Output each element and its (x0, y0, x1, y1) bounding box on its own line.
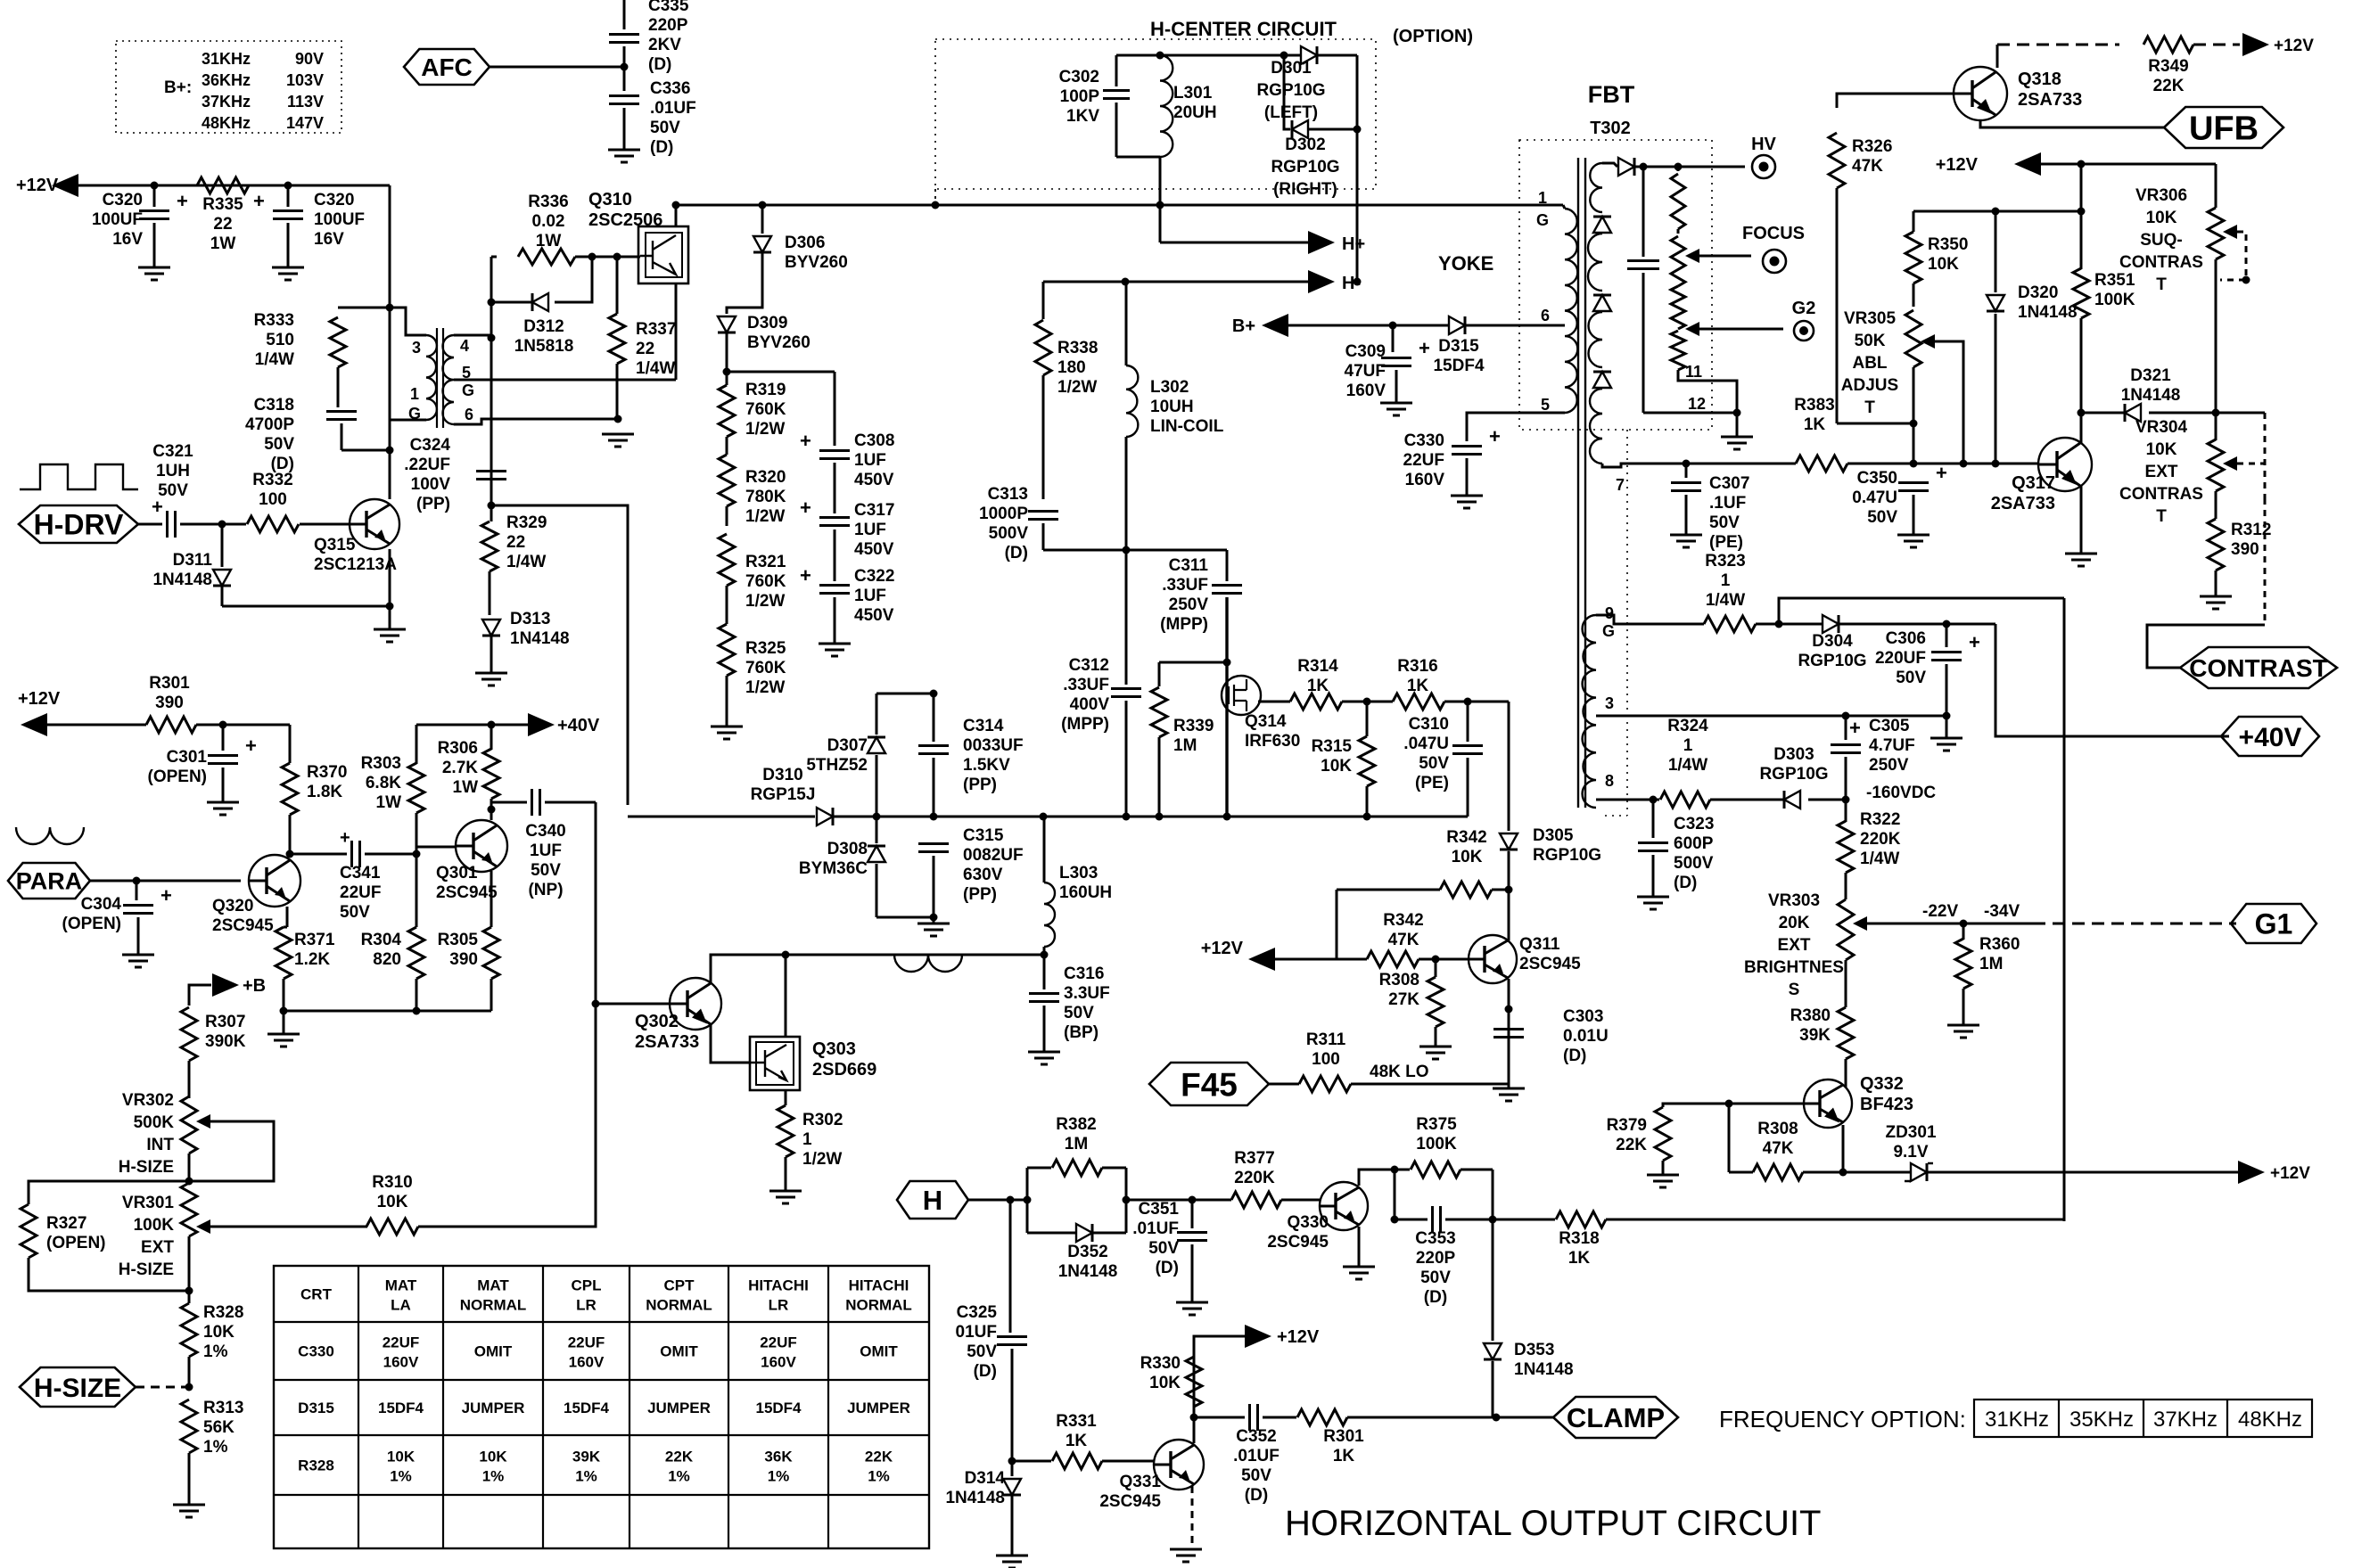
wire R301 to R370 (196, 724, 290, 727)
wire H-center bottom rail (1116, 156, 1160, 159)
capacitor C306 (1946, 624, 1948, 647)
wire D308/C315 bottom link (876, 916, 934, 919)
transformer T301 core (436, 328, 438, 428)
svg-text:48K LO: 48K LO (1370, 1063, 1429, 1081)
resistor R360 (1962, 924, 1965, 940)
wire pin3 rail stub (1596, 715, 1621, 718)
ground FBT internal (1736, 413, 1739, 437)
svg-text:+: + (1936, 462, 1947, 484)
wire T301 pin4 node down to C324 (490, 257, 493, 505)
node R333 top junction (386, 304, 394, 312)
wire FBT pin6 connect (1468, 324, 1565, 327)
resistor R310 (366, 1219, 418, 1235)
transistor Q302 (2SA733) (670, 978, 721, 1030)
capacitor C335 (623, 0, 626, 29)
wire Q301 emitter to R305 (490, 871, 493, 927)
svg-text:1: 1 (1538, 189, 1547, 207)
svg-text:L30120UH: L30120UH (1173, 84, 1217, 122)
wire HV caps chain (727, 371, 835, 374)
node R342 junction (1505, 886, 1513, 894)
dotted outline FBT (1519, 140, 1712, 430)
connector H-SIZE (20, 1367, 136, 1407)
svg-text:JUMPER: JUMPER (462, 1400, 525, 1416)
capacitor C325 (1009, 1200, 1012, 1333)
ground below R308 (1419, 1047, 1452, 1059)
wire Q332 emitter (1842, 1125, 1845, 1172)
svg-text:+: + (1489, 425, 1501, 447)
capacitor C309 (1392, 325, 1395, 352)
FBT focus divider resistor middle (1671, 286, 1685, 329)
FBT G2 pot wiper (1685, 322, 1699, 336)
capacitor C305 (1845, 716, 1847, 740)
resistor R314 (1290, 694, 1342, 710)
svg-text:F45: F45 (1181, 1066, 1238, 1103)
FBT HV secondary winding with rectifier diodes (1590, 163, 1602, 212)
svg-text:3: 3 (1605, 694, 1614, 712)
connector PARA (8, 863, 90, 899)
power +40V arrow (528, 713, 555, 736)
capacitor C341 (352, 841, 360, 867)
capacitor C303 (1493, 1030, 1524, 1038)
diode D301 (1301, 46, 1317, 64)
svg-text:R3701.8K: R3701.8K (307, 763, 347, 801)
wire H-SIZE dashed to node (136, 1386, 189, 1389)
diode D315 (1449, 316, 1465, 334)
svg-text:+40V: +40V (2239, 723, 2302, 752)
svg-text:H+: H+ (1342, 234, 1365, 254)
wire Q332 base node down to R308 (1728, 1104, 1731, 1172)
wire stub to H-center dashed (934, 189, 936, 205)
svg-text:B+:: B+: (164, 78, 192, 97)
capacitor C301 (OPEN) (222, 725, 225, 751)
svg-text:-34V: -34V (1984, 902, 2020, 921)
svg-text:R322220K1/4W: R322220K1/4W (1860, 810, 1901, 868)
diode D352 (1027, 1232, 1076, 1235)
resistor R305 (483, 927, 499, 979)
power +12V (left mid) (21, 713, 47, 736)
power B+ arrow (1262, 314, 1288, 337)
svg-text:FOCUS: FOCUS (1742, 224, 1805, 243)
capacitor C351 (1191, 1200, 1194, 1228)
resistor R307 (181, 1007, 197, 1061)
svg-text:C3211UH50V: C3211UH50V (152, 442, 193, 500)
wire R318 to contrast vertical (1606, 1219, 2064, 1221)
power +B arrow (189, 985, 211, 1006)
resistor R328 (188, 1291, 191, 1303)
diode D313 (482, 620, 500, 636)
wire ZD301 to +12V (1928, 1171, 2240, 1174)
wire VR304 wiper dashed down to contrast (2264, 498, 2267, 625)
svg-text:G2: G2 (1792, 299, 1816, 318)
resistor R383 (1796, 456, 1847, 472)
wire pin8 rail (1621, 799, 1659, 801)
resistor R338 (1042, 282, 1045, 319)
diode ZD301 (1843, 1171, 1911, 1174)
svg-text:+: + (340, 828, 350, 848)
wire C324 junction to D310 line (491, 505, 628, 805)
resistor R336 (491, 256, 497, 259)
ground below C307 (1670, 535, 1702, 547)
diode D305 chain (1508, 702, 1510, 831)
transistor Q332 (BF423) (1804, 1080, 1852, 1128)
svg-text:JUMPER: JUMPER (647, 1400, 711, 1416)
svg-text:12: 12 (1688, 395, 1706, 413)
node R328 top (185, 1287, 193, 1295)
potentiometer VR303 EXT BRIGHTNESS (1838, 899, 1854, 960)
ground below R379 (1647, 1175, 1679, 1187)
svg-text:PARA: PARA (16, 868, 83, 895)
diode D314 (1011, 1461, 1014, 1476)
diode D311 (221, 524, 224, 567)
ground below R312 (2200, 596, 2232, 609)
resistor R337 (613, 253, 621, 261)
FBT primary winding (pins 1,G,6,5) (1563, 205, 1565, 209)
transistor Q330 (2SC945) (1320, 1182, 1368, 1230)
connector G1 (2231, 904, 2316, 943)
yoke coil symbol near PARA (16, 827, 84, 844)
connector AFC (404, 49, 490, 85)
terminal HV (1752, 155, 1775, 178)
resistor R312 (2208, 519, 2224, 571)
ground below Q315 (389, 606, 391, 629)
svg-text:R34922K: R34922K (2148, 57, 2188, 95)
node C324 bottom junction (488, 502, 496, 510)
node R319 top (723, 368, 731, 376)
node C320b junction (284, 182, 292, 190)
svg-text:C3054.7UF250V: C3054.7UF250V (1869, 717, 1915, 775)
wire Q318 collector dashed to R349 (1996, 45, 1999, 68)
svg-text:OMIT: OMIT (860, 1343, 898, 1360)
yoke winding symbol (894, 955, 962, 972)
capacitor C321 (138, 523, 162, 526)
svg-text:C330: C330 (298, 1343, 334, 1360)
connector UFB (2164, 107, 2283, 148)
svg-text:1: 1 (410, 385, 419, 403)
wire y617 cross link (1043, 549, 1227, 552)
resistor R319 (726, 372, 728, 385)
node C305 bottom (1842, 796, 1850, 804)
resistor R301 (1K) (1297, 1409, 1347, 1425)
connector CLAMP (1553, 1397, 1678, 1438)
node R339/C311 link (1159, 661, 1227, 664)
dashed frame around H-center circuit (935, 39, 1376, 189)
svg-text:+: + (1849, 717, 1861, 739)
svg-text:35KHz: 35KHz (2069, 1408, 2134, 1432)
svg-text:+: + (1969, 631, 1980, 653)
wire D307 top link (876, 693, 934, 695)
ground below C316 (1028, 1052, 1060, 1064)
inductor L302 (1125, 282, 1128, 365)
svg-text:G: G (408, 405, 421, 423)
resistor R342 (47K) (1367, 951, 1419, 967)
svg-text:OMIT: OMIT (474, 1343, 513, 1360)
svg-text:+B: +B (243, 976, 266, 996)
svg-text:+: + (245, 735, 257, 757)
node AFC junction (621, 63, 629, 71)
resistor R331 (1012, 1460, 1051, 1463)
svg-text:-160VDC: -160VDC (1866, 784, 1936, 802)
wire Q310 collector to top bus (675, 205, 678, 226)
capacitor C317 (819, 518, 850, 526)
resistor R333 (338, 307, 390, 309)
node R331/D314 (1008, 1457, 1016, 1465)
node R314/R315/R316 (1342, 701, 1393, 703)
capacitor C308 (834, 372, 836, 446)
svg-text:+: + (800, 430, 811, 452)
svg-text:HORIZONTAL OUTPUT CIRCUIT: HORIZONTAL OUTPUT CIRCUIT (1285, 1504, 1821, 1543)
svg-text:G: G (462, 382, 474, 399)
resistor R313 (181, 1400, 197, 1453)
svg-text:AFC: AFC (421, 53, 473, 81)
svg-text:+12V: +12V (2270, 1164, 2310, 1183)
svg-text:CRT: CRT (300, 1286, 333, 1303)
wire pin8 rail stub (1596, 799, 1621, 801)
wire Q318 emitter to UFB (1980, 120, 2165, 127)
svg-text:+: + (1419, 337, 1430, 359)
wire G2 (1699, 328, 1783, 331)
node R306/C340 (488, 806, 496, 814)
wire R379 top to Q332 base (1663, 1104, 1804, 1107)
wire Q314 source to R314 (1258, 701, 1290, 703)
wire HV line (1635, 166, 1745, 168)
FBT focus pot wiper (FOCUS) (1671, 236, 1685, 286)
wire to Q301 base (416, 846, 456, 849)
transistor Q320 (2SC945) (249, 855, 300, 907)
resistor R301 (146, 717, 196, 733)
wire Q330 collector to R375 (1359, 1170, 1395, 1186)
resistor R335 (197, 177, 249, 193)
wire Q317 emitter to ground (2080, 486, 2083, 554)
svg-text:D315: D315 (298, 1400, 334, 1416)
wire VR301 wiper to R310 (210, 1226, 367, 1228)
potentiometer VR301 EXT H-SIZE (181, 1183, 197, 1236)
inductor L303 (1043, 817, 1046, 883)
capacitor C313 (1028, 512, 1058, 520)
resistor R304 (416, 854, 418, 927)
waveform pulse symbol (H-DRV) (20, 464, 138, 489)
wire +12V to R301 (47, 724, 146, 727)
wire bottom rail R371/R304/R305 (284, 1010, 491, 1013)
svg-text:D31515DF4: D31515DF4 (1433, 337, 1484, 375)
capacitor C330 (1452, 447, 1482, 455)
resistor R326 (1829, 133, 1845, 188)
svg-text:15DF4: 15DF4 (378, 1400, 424, 1416)
wire R382 block to C351 node (1024, 1196, 1032, 1204)
wire VR305 wiper (1935, 341, 1963, 464)
FBT focus divider resistor upper (1677, 167, 1680, 171)
svg-text:H: H (923, 1185, 942, 1216)
svg-text:+12V: +12V (16, 176, 59, 195)
ground below C351 (1176, 1302, 1208, 1315)
capacitor C307 (1685, 464, 1688, 478)
ground below rail (283, 1011, 285, 1034)
dotted outline FBT lower (1626, 430, 1628, 816)
wire Q331 emitter to ground (1191, 1486, 1194, 1549)
transistor Q311 (2SC945) (1469, 935, 1517, 983)
diode D303 (1710, 799, 1784, 801)
ground below C323 (1637, 897, 1669, 909)
capacitor C314 (933, 694, 935, 742)
resistor R316 (1393, 694, 1444, 710)
svg-text:YOKE: YOKE (1438, 252, 1493, 275)
svg-text:OMIT: OMIT (660, 1343, 698, 1360)
resistor R325 (719, 624, 735, 676)
svg-text:R328: R328 (298, 1457, 334, 1474)
wire C318 bottom to C324 line (341, 449, 390, 452)
svg-text:G: G (1536, 211, 1549, 229)
ground below C309 (1380, 403, 1412, 415)
capacitor C340 (491, 801, 527, 804)
transistor Q301 (2SC945) (456, 820, 507, 872)
resistor R329 (490, 505, 493, 521)
resistor R377 (1231, 1192, 1281, 1208)
resistor R311 (1269, 1083, 1299, 1086)
svg-text:C33022UF160V: C33022UF160V (1403, 431, 1445, 489)
ground below C350 (1897, 535, 1930, 547)
ground below C320 second (272, 267, 304, 280)
svg-text:31KHz: 31KHz (1985, 1408, 2049, 1432)
CRT option table (274, 1266, 929, 1548)
wire PARA to Q320 base (90, 880, 241, 883)
svg-text:T302: T302 (1590, 119, 1631, 138)
svg-text:+: + (177, 190, 188, 212)
wire FBT cap to ground node (1643, 412, 1737, 415)
arrow H+ (1308, 231, 1335, 254)
wire Q302 base (596, 1003, 670, 1006)
transistor Q318 (2SA733) (1954, 67, 2007, 120)
wire Q315 collector to C318/C324 node (389, 450, 391, 499)
svg-text:R351100K: R351100K (2094, 271, 2135, 309)
wire divider bottom to ground (1678, 370, 1737, 413)
wire Q320 emitter to R371 (286, 907, 289, 927)
diode FBT top HV diode (1602, 163, 1617, 167)
wire FBT pin5 to C330 (1467, 413, 1565, 441)
resistor R322 (1845, 800, 1847, 822)
ground below C303 (1493, 1088, 1525, 1101)
node R360 top (1960, 920, 1968, 928)
resistor R321 (719, 534, 735, 586)
ground below C306 (1946, 716, 1948, 738)
resistor R330 (1193, 1357, 1196, 1417)
capacitor C320 (second) (287, 185, 290, 207)
ground below R302 (769, 1191, 802, 1203)
svg-text:R34247K: R34247K (1383, 911, 1423, 949)
wire H- line (1043, 281, 1309, 283)
wire R343 to Q311 base (1419, 958, 1469, 961)
svg-text:37KHz: 37KHz (2153, 1408, 2218, 1432)
wire +12V rail (78, 185, 390, 187)
svg-text:4: 4 (460, 337, 469, 355)
wire FBT pin7 rail (1621, 463, 1796, 465)
wire +40V link (1995, 624, 2229, 736)
wire +12V rail to transformer T301 (389, 185, 391, 456)
resistor R302 (778, 1105, 794, 1157)
B+ frequency/voltage table (dotted box) (116, 41, 341, 133)
wire R310 to Q302 base column (418, 1004, 596, 1227)
resistor R332 (222, 523, 246, 526)
wire R370 to Q320 collector (289, 815, 292, 854)
ground below C322 (819, 644, 851, 656)
resistor R308 (27K) (1435, 959, 1437, 977)
svg-text:+12V: +12V (2274, 37, 2314, 55)
wire main bus (+flyback) y230 (676, 204, 1563, 207)
svg-text:C3401UF50V(NP): C3401UF50V(NP) (525, 822, 565, 899)
svg-text:B+: B+ (1232, 316, 1255, 336)
svg-text:6: 6 (465, 406, 473, 423)
transistor Q315 (2SC1213A) (350, 499, 399, 549)
resistor R349 (2143, 37, 2193, 53)
svg-text:H-CENTER CIRCUIT: H-CENTER CIRCUIT (1150, 18, 1337, 40)
svg-text:R325760K1/2W: R325760K1/2W (745, 639, 786, 697)
capacitor C350 (1898, 483, 1929, 491)
wire FOCUS (1699, 255, 1751, 258)
wire R383 to Q317 base (1847, 463, 2038, 465)
node C303 top (1505, 1006, 1513, 1014)
svg-text:48KHz: 48KHz (2238, 1408, 2302, 1432)
ground below C336 (608, 150, 640, 162)
capacitor C324 (476, 472, 506, 480)
node T301 pin6/ground junction (614, 415, 622, 423)
svg-text:R3711.2K: R3711.2K (294, 931, 335, 969)
wire contrast vertical line (2063, 598, 2066, 1221)
resistor R318 (1493, 1219, 1555, 1221)
wire R377 to Q330 base (1281, 1199, 1320, 1202)
svg-text:HV: HV (1751, 135, 1776, 154)
connector F45 (1149, 1063, 1269, 1105)
svg-text:6: 6 (1541, 307, 1550, 324)
svg-text:11: 11 (1685, 363, 1702, 381)
diode D302 (1284, 55, 1290, 129)
svg-text:5: 5 (462, 364, 471, 382)
wire Q311 collector (1508, 935, 1510, 940)
capacitor C352 (1194, 1416, 1245, 1419)
wire H-center top rail (1116, 54, 1301, 57)
diode D308 (876, 817, 878, 843)
wire C340 right to Q302 base column (595, 802, 597, 1004)
transistor Q314 (IRF630 MOSFET) (1222, 676, 1261, 715)
svg-text:G1: G1 (2255, 908, 2293, 940)
transistor Q331 (2SC945) (1154, 1440, 1204, 1490)
ground below C315 (933, 917, 935, 924)
diode D310 (817, 808, 833, 825)
svg-text:3: 3 (412, 339, 421, 357)
wire Q318 base to R326 (1837, 94, 1954, 108)
ground below R337 (602, 434, 634, 447)
resistor R324 (1660, 792, 1710, 808)
svg-text:(OPTION): (OPTION) (1393, 27, 1473, 46)
svg-text:9: 9 (1605, 604, 1614, 622)
transformer T301 secondary winding (442, 335, 454, 424)
capacitor C315 (918, 844, 949, 852)
svg-text:H-DRV: H-DRV (34, 509, 124, 541)
svg-text:JUMPER: JUMPER (847, 1400, 910, 1416)
resistor R375 (1395, 1169, 1410, 1171)
wire R326 to VR305 bottom (1837, 423, 1913, 425)
resistor R350 (1913, 211, 1915, 232)
svg-text:+12V: +12V (18, 689, 61, 709)
node C320a junction (151, 182, 159, 190)
connector CONTRAST (2147, 625, 2265, 668)
wire Q317 collector to D321 node (2080, 413, 2083, 443)
resistor R308 (47K) (1729, 1171, 1753, 1174)
capacitor C312 (1125, 550, 1128, 685)
ground below C320 first (138, 267, 170, 280)
resistor R315 (1366, 702, 1369, 736)
wire B+ to FBT pin6 (1288, 324, 1565, 327)
wire L301 to bus (1159, 157, 1162, 242)
wire pin9 rail (1596, 615, 1621, 624)
ground below R313 (173, 1505, 205, 1517)
